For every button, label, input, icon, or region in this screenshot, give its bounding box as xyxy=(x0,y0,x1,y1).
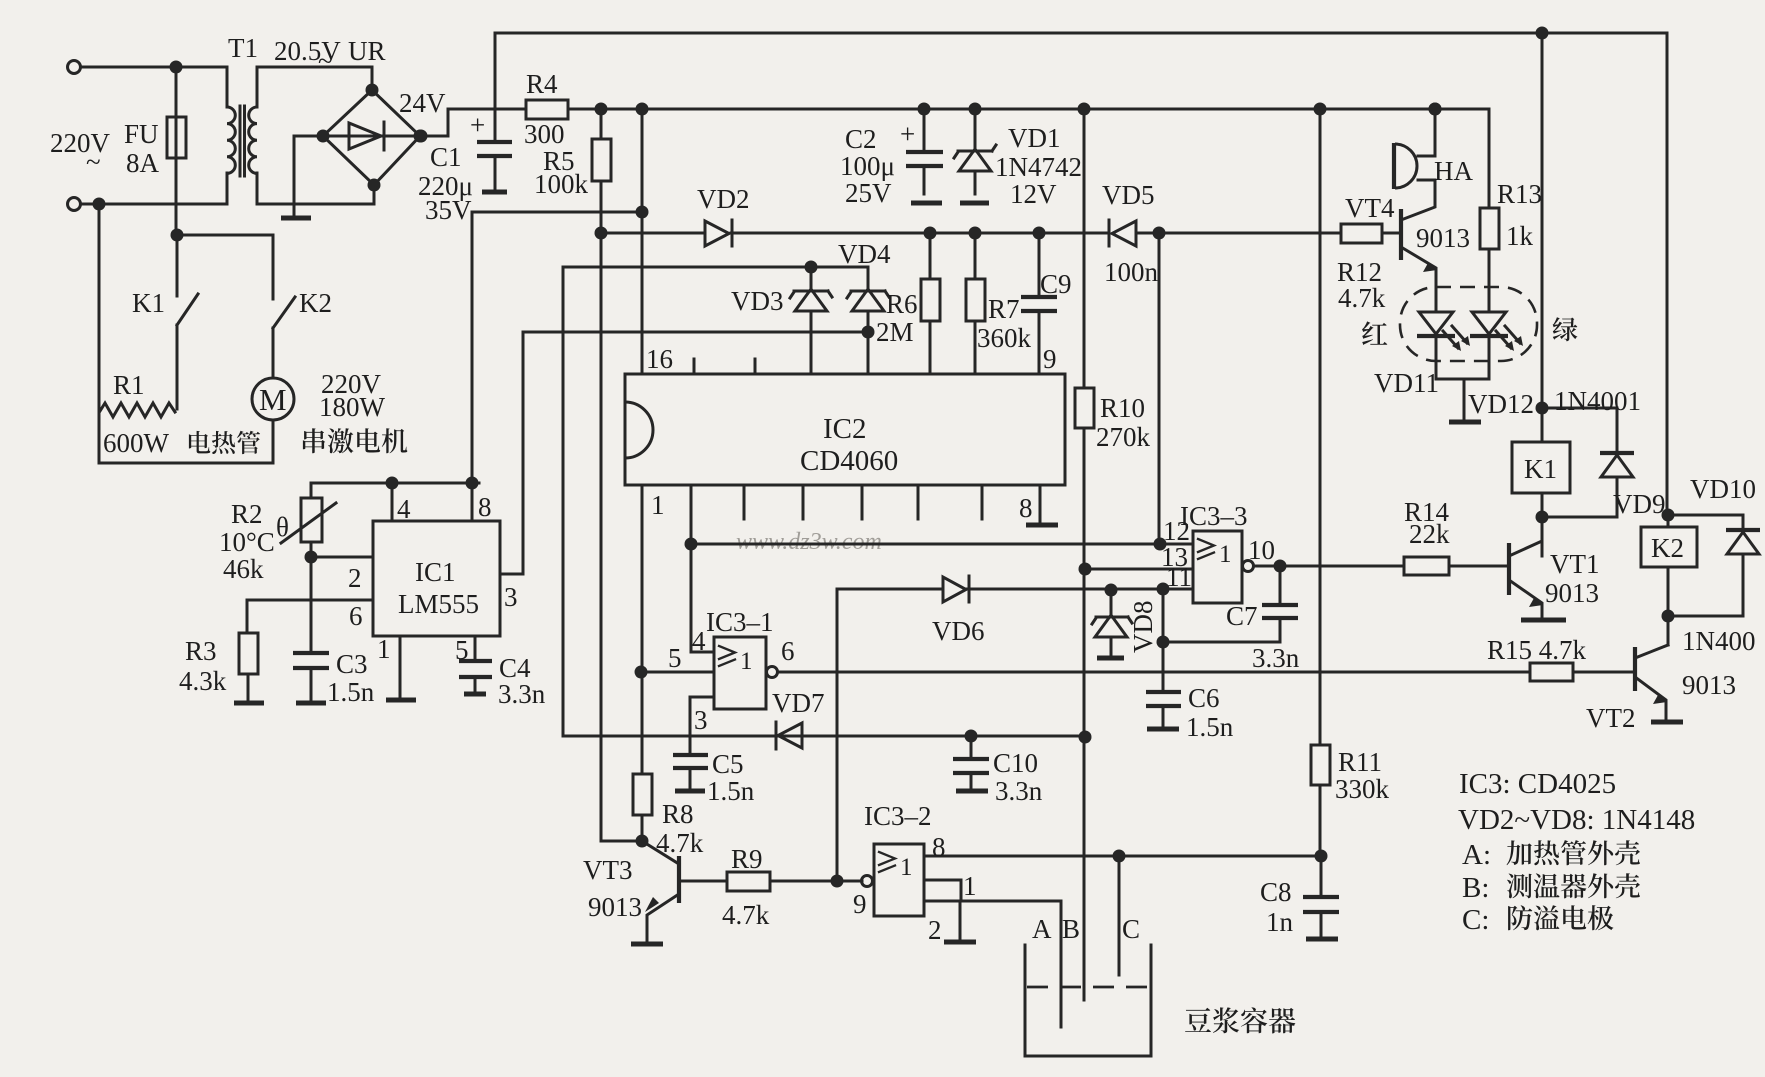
svg-text:R15 4.7k: R15 4.7k xyxy=(1487,635,1587,665)
svg-text:B: B xyxy=(1062,914,1080,944)
svg-text:C:: C: xyxy=(1462,904,1489,936)
svg-text:1N4001: 1N4001 xyxy=(1554,386,1641,416)
svg-text:VD6: VD6 xyxy=(932,616,985,646)
wire VD3VD4 node down to VD7 line xyxy=(562,267,565,736)
svg-text:VD2~VD8: 1N4148: VD2~VD8: 1N4148 xyxy=(1458,804,1695,836)
transistor VT4 9013 xyxy=(1399,209,1403,260)
svg-text:1.5n: 1.5n xyxy=(327,677,375,707)
svg-text:10: 10 xyxy=(1248,535,1275,565)
svg-text:1: 1 xyxy=(377,634,391,664)
switch K1 xyxy=(176,235,179,296)
svg-text:VD5: VD5 xyxy=(1102,180,1155,210)
svg-text:3: 3 xyxy=(504,582,518,612)
resistor R8 4.7k xyxy=(633,774,652,815)
svg-text:VT2: VT2 xyxy=(1586,703,1636,733)
resistor R6 2M xyxy=(929,233,932,279)
wire IC2 pin 1 down xyxy=(641,485,644,774)
wire N to transformer xyxy=(81,203,227,206)
capacitor C1 220u 35V xyxy=(494,33,497,141)
svg-text:VD2: VD2 xyxy=(697,184,750,214)
capacitor C2 100u 25V xyxy=(923,109,926,152)
svg-text:2M: 2M xyxy=(876,317,914,347)
svg-text:C3: C3 xyxy=(336,649,368,679)
wire LED common to ground xyxy=(1436,379,1489,421)
svg-text:CD4060: CD4060 xyxy=(800,445,898,477)
svg-text:IC3–1: IC3–1 xyxy=(706,607,774,637)
wire IC3-1 pin 3 xyxy=(690,697,714,755)
svg-text:9: 9 xyxy=(853,889,867,919)
svg-text:VD4: VD4 xyxy=(838,239,891,269)
svg-text:R7: R7 xyxy=(988,294,1020,324)
wire IC3-3 pin 13 xyxy=(1085,568,1193,571)
svg-text:VT4: VT4 xyxy=(1345,193,1395,223)
svg-text:VT3: VT3 xyxy=(583,855,633,885)
gate IC3-2 xyxy=(874,844,924,916)
wire bridge output to R4 xyxy=(420,109,526,136)
node R4 rail HA xyxy=(1429,103,1442,116)
transistor VT2 9013 xyxy=(1633,647,1637,691)
resistor R10 270k xyxy=(1083,109,1086,388)
svg-text:VT1: VT1 xyxy=(1550,549,1600,579)
transformer T1 secondary winding xyxy=(257,67,372,107)
node pin11 branch xyxy=(1157,583,1170,596)
node K2 VD10 top xyxy=(1662,509,1675,522)
svg-text:330k: 330k xyxy=(1335,774,1390,804)
wire IC3-2 pin 1 to electrode A xyxy=(924,880,1061,1027)
svg-text:1: 1 xyxy=(651,490,665,520)
capacitor C8 1n xyxy=(1320,856,1323,897)
svg-text:35V: 35V xyxy=(425,195,472,225)
pin stubs bottom xyxy=(743,485,746,519)
svg-text:IC3–2: IC3–2 xyxy=(864,801,932,831)
node R4 rail C2 xyxy=(918,103,931,116)
wire R12 to VT4 base xyxy=(1382,232,1400,235)
svg-text:270k: 270k xyxy=(1096,422,1151,452)
svg-text:C5: C5 xyxy=(712,749,744,779)
wire VD5 node down to pin12 line xyxy=(1158,233,1161,544)
wire IC3-2 pin 8 output line xyxy=(924,855,1321,858)
wire 12V rail to HA branch xyxy=(1320,108,1489,111)
svg-text:VD7: VD7 xyxy=(772,688,825,718)
svg-text:8: 8 xyxy=(932,832,946,862)
svg-text:12V: 12V xyxy=(1010,179,1057,209)
svg-text:R13: R13 xyxy=(1497,179,1542,209)
svg-text:www.dz3w.com: www.dz3w.com xyxy=(736,529,882,555)
resistor R13 1k xyxy=(1488,109,1491,208)
svg-text:8: 8 xyxy=(478,492,492,522)
IC1 LM555 box xyxy=(373,521,500,636)
wire 24V top rail xyxy=(495,32,1667,35)
svg-text:6: 6 xyxy=(349,601,363,631)
node VD3 cathode xyxy=(805,261,818,274)
terminal input L xyxy=(68,61,81,74)
node pin8 R11 C8 xyxy=(1315,850,1328,863)
wire pin 2 xyxy=(311,556,373,559)
terminal input N xyxy=(68,198,81,211)
svg-text:R2: R2 xyxy=(231,499,263,529)
svg-text:4.7k: 4.7k xyxy=(722,900,770,930)
svg-text:100μ: 100μ xyxy=(840,151,895,181)
wire bridge left to ground xyxy=(294,136,323,217)
node feed jog xyxy=(636,206,649,219)
wire VD6 branch down to R9 node xyxy=(836,589,839,881)
svg-text:100k: 100k xyxy=(534,169,589,199)
svg-text:~: ~ xyxy=(86,147,101,177)
svg-text:2: 2 xyxy=(348,563,362,593)
wire pin 3 output up and right xyxy=(500,332,869,574)
svg-text:HA: HA xyxy=(1434,156,1473,186)
svg-text:11: 11 xyxy=(1166,562,1192,592)
transistor VT1 9013 xyxy=(1507,543,1511,595)
pin stub top b xyxy=(754,359,757,374)
node VT3 collector xyxy=(636,835,649,848)
svg-text:1.5n: 1.5n xyxy=(1186,712,1234,742)
svg-text:9013: 9013 xyxy=(1682,670,1736,700)
node VD4 anode pin3 line xyxy=(862,326,875,339)
svg-text:1: 1 xyxy=(900,854,913,881)
node K branch junction xyxy=(171,229,184,242)
svg-text:VD1: VD1 xyxy=(1008,123,1061,153)
svg-text:R11: R11 xyxy=(1338,747,1382,777)
diode VD6 xyxy=(837,588,1193,591)
gate IC3-1 xyxy=(714,637,766,709)
diode VD3 xyxy=(810,267,813,287)
diode VD7 xyxy=(563,735,1085,738)
wire IC3-2 pin 2 ground xyxy=(959,901,962,941)
wire R5 branch down to VT3 collector xyxy=(601,233,642,841)
motor M xyxy=(252,378,294,420)
svg-text:K1: K1 xyxy=(1524,454,1557,484)
svg-text:C2: C2 xyxy=(845,124,877,154)
gate IC3-3 output bubble pin 10 xyxy=(1243,561,1254,572)
wire VD3 VD4 cathode node xyxy=(563,267,868,287)
svg-text:1n: 1n xyxy=(1266,907,1294,937)
svg-text:R3: R3 xyxy=(185,636,217,666)
node bridge top xyxy=(366,84,379,97)
svg-text:~: ~ xyxy=(318,46,333,76)
svg-text:1: 1 xyxy=(963,871,977,901)
node R4 rail VD1 xyxy=(969,103,982,116)
svg-text:360k: 360k xyxy=(977,323,1032,353)
svg-text:3.3n: 3.3n xyxy=(995,776,1043,806)
svg-text:R1: R1 xyxy=(113,370,145,400)
svg-text:4: 4 xyxy=(692,626,706,656)
wire IC1 supply pins 4 8 xyxy=(311,482,479,485)
wire VD2 rail xyxy=(601,232,1399,235)
svg-text:K2: K2 xyxy=(1651,533,1684,563)
wire pin11 branch to C7 bottom and C6 xyxy=(1162,589,1165,692)
relay coil K1 xyxy=(1512,442,1570,493)
svg-text:1N4742: 1N4742 xyxy=(995,152,1082,182)
svg-text:IC3–3: IC3–3 xyxy=(1180,501,1248,531)
container tank xyxy=(1025,945,1151,1056)
svg-text:9: 9 xyxy=(1043,344,1057,374)
node K1 bottom xyxy=(1536,511,1549,524)
svg-text:C1: C1 xyxy=(430,142,462,172)
LED VD12 green xyxy=(1472,312,1506,334)
svg-text:24V: 24V xyxy=(399,88,446,118)
svg-text:8: 8 xyxy=(1019,493,1033,523)
svg-text:4.3k: 4.3k xyxy=(179,666,227,696)
svg-text:VD9: VD9 xyxy=(1613,489,1666,519)
capacitor C10 3.3n xyxy=(970,736,973,759)
svg-text:IC2: IC2 xyxy=(823,413,867,445)
node top rail K1 branch xyxy=(1536,27,1549,40)
resistor R15 4.7k xyxy=(1530,663,1573,681)
svg-text:16: 16 xyxy=(646,344,673,374)
capacitor C3 1.5n xyxy=(310,557,313,652)
node R4 rail pin16 line xyxy=(636,103,649,116)
wire pin10 to R14 and VT1 xyxy=(1254,565,1508,568)
node HA top xyxy=(1429,103,1442,116)
svg-text:10°C: 10°C xyxy=(219,527,275,557)
speaker HA xyxy=(1418,109,1435,156)
node R2 bottom pin2 xyxy=(305,551,318,564)
svg-text:C6: C6 xyxy=(1188,683,1220,713)
zener VD8 xyxy=(1105,584,1118,597)
fuse FU 8A xyxy=(175,67,178,235)
wire L to transformer xyxy=(81,66,227,69)
svg-text:VD12: VD12 xyxy=(1468,389,1534,419)
node R6 top xyxy=(924,227,937,240)
svg-text:3.3n: 3.3n xyxy=(1252,643,1300,673)
svg-text:VD10: VD10 xyxy=(1690,474,1756,504)
resistor R5 100k xyxy=(600,109,603,139)
wire IC2 pin 8 ground xyxy=(1039,485,1042,524)
transformer T1 core xyxy=(240,106,245,176)
IC2 CD4060 box xyxy=(625,374,1065,485)
svg-text:R6: R6 xyxy=(886,289,918,319)
resistor R9 4.7k xyxy=(727,872,770,891)
wire pin 1 to ground xyxy=(399,636,402,699)
wire top rail right edge down to K2 xyxy=(1666,33,1669,515)
svg-text:R9: R9 xyxy=(731,844,763,874)
resistor R3 4.3k xyxy=(239,633,258,674)
node VD7 line C10 xyxy=(965,730,978,743)
gate IC3-2 input bubble pin 9 xyxy=(862,876,873,887)
diode VD9 1N4001 xyxy=(1542,408,1617,455)
svg-text:8A: 8A xyxy=(126,148,160,178)
label container xyxy=(1185,1007,1295,1033)
node C9 top xyxy=(1033,227,1046,240)
thermistor R2 10C 46k xyxy=(310,483,313,498)
svg-text:VD11: VD11 xyxy=(1374,368,1439,398)
bridge rectifier inner diode xyxy=(323,135,420,138)
zener VD1 1N4742 xyxy=(974,109,977,147)
svg-text:T1: T1 xyxy=(228,33,258,63)
node R4 rail R10 xyxy=(1078,103,1091,116)
node VD7 line electrodeB xyxy=(1079,731,1092,744)
resistor R7 360k xyxy=(974,233,977,279)
svg-text:9013: 9013 xyxy=(1416,223,1470,253)
svg-text:1k: 1k xyxy=(1506,221,1534,251)
svg-text:R4: R4 xyxy=(526,69,558,99)
svg-text:C7: C7 xyxy=(1226,601,1258,631)
gate IC3-1 output bubble pin 6 xyxy=(767,667,778,678)
resistor R12 4.7k xyxy=(1341,224,1382,243)
resistor R1 heater xyxy=(100,403,175,417)
wire pin6 R15 line to VT2 xyxy=(778,671,1634,674)
diode VD2 xyxy=(705,221,729,246)
wire K branch to K2 xyxy=(177,235,273,299)
transistor VT3 9013 xyxy=(677,856,681,903)
svg-text:9013: 9013 xyxy=(1545,578,1599,608)
svg-text:R10: R10 xyxy=(1100,393,1145,423)
wire IC2 pin 16 xyxy=(641,212,644,374)
svg-text:180W: 180W xyxy=(319,392,386,422)
LED VD11 red xyxy=(1419,312,1453,334)
node K1 VD9 top xyxy=(1536,402,1549,415)
wire IC2 pin2 down to pin12 line xyxy=(690,485,693,544)
svg-text:1N400: 1N400 xyxy=(1682,626,1756,656)
relay coil K2 xyxy=(1667,515,1670,527)
switch K2 xyxy=(273,297,295,328)
wire pin12 net IC2 to IC3-3 xyxy=(691,543,1193,546)
node pin8 electrodeC xyxy=(1113,850,1126,863)
svg-text:300: 300 xyxy=(524,119,565,149)
svg-text:C10: C10 xyxy=(993,748,1038,778)
node bridge bottom xyxy=(368,179,381,192)
node R7 top xyxy=(969,227,982,240)
wire IC3-1 pin 5 xyxy=(641,671,714,674)
svg-text:1: 1 xyxy=(740,648,753,675)
svg-text:IC1: IC1 xyxy=(415,557,456,587)
node N junction xyxy=(93,198,106,211)
capacitor C4 3.3n on pin 5 xyxy=(474,636,477,661)
node 24V junction at bridge output xyxy=(415,130,428,143)
node L-fuse junction xyxy=(170,61,183,74)
svg-text:IC3: CD4025: IC3: CD4025 xyxy=(1459,768,1616,800)
node R5 bottom xyxy=(595,227,608,240)
wire heater motor return loop xyxy=(99,204,273,463)
wire pin 6 to R3 xyxy=(247,600,373,633)
svg-text:2: 2 xyxy=(928,915,942,945)
electrode C wire xyxy=(1118,856,1121,975)
svg-text:θ: θ xyxy=(276,512,289,542)
svg-text:1.5n: 1.5n xyxy=(707,776,755,806)
svg-text:3: 3 xyxy=(694,705,708,735)
capacitor C5 1.5n xyxy=(673,753,708,757)
svg-text:25V: 25V xyxy=(845,178,892,208)
resistor R14 22k xyxy=(1404,557,1449,575)
svg-text:220V: 220V xyxy=(50,128,111,158)
svg-text:M: M xyxy=(259,382,287,417)
svg-text:5: 5 xyxy=(668,643,682,673)
svg-text:C: C xyxy=(1122,914,1140,944)
svg-text:B:: B: xyxy=(1462,872,1489,904)
node R4 rail R5 xyxy=(595,103,608,116)
resistor R11 330k xyxy=(1311,745,1330,785)
capacitor C7 3.3n feedback xyxy=(1279,566,1282,605)
svg-text:6: 6 xyxy=(781,636,795,666)
svg-text:1: 1 xyxy=(1219,541,1232,568)
node R4 rail R11 xyxy=(1314,103,1327,116)
svg-text:46k: 46k xyxy=(223,554,264,584)
svg-text:UR: UR xyxy=(348,36,386,66)
svg-text:A:: A: xyxy=(1462,839,1491,871)
svg-text:A: A xyxy=(1032,914,1052,944)
svg-text:LM555: LM555 xyxy=(398,589,479,619)
wire 24V feed to IC1 xyxy=(472,109,642,483)
node R9 IC3-2 input xyxy=(831,875,844,888)
svg-text:R8: R8 xyxy=(662,799,694,829)
svg-text:C9: C9 xyxy=(1040,269,1072,299)
dashed LED enclosure xyxy=(1400,287,1537,361)
svg-text:FU: FU xyxy=(124,119,159,149)
wire IC3-1 pin 4 xyxy=(691,544,714,652)
node bridge left xyxy=(317,130,330,143)
bridge rectifier UR diamond xyxy=(371,67,374,90)
svg-text:9013: 9013 xyxy=(588,892,642,922)
diode VD4 xyxy=(847,291,889,298)
wire top rail down to K1 xyxy=(1541,33,1544,442)
svg-text:600W: 600W xyxy=(103,428,170,458)
diode VD5 xyxy=(1112,221,1136,246)
svg-text:VD3: VD3 xyxy=(731,286,784,316)
gate IC3-3 xyxy=(1193,531,1242,603)
node VD5 anode junction xyxy=(1153,227,1166,240)
svg-text:C8: C8 xyxy=(1260,877,1292,907)
svg-text:22k: 22k xyxy=(1409,519,1450,549)
liquid dashed line xyxy=(1027,986,1149,989)
capacitor C6 1.5n xyxy=(1146,690,1181,694)
node K2 bottom xyxy=(1662,610,1675,623)
svg-text:3.3n: 3.3n xyxy=(498,679,546,709)
svg-text:5: 5 xyxy=(455,635,469,665)
svg-text:+: + xyxy=(470,110,485,140)
svg-text:K2: K2 xyxy=(299,288,332,318)
svg-text:100n: 100n xyxy=(1104,257,1159,287)
pin stub top a xyxy=(693,359,696,374)
node bridge right xyxy=(414,130,427,143)
ground below bridge xyxy=(281,216,311,221)
capacitor C9 xyxy=(1038,233,1041,297)
svg-text:+: + xyxy=(900,119,915,149)
resistor R4 300 xyxy=(526,100,568,119)
transformer T1 primary winding xyxy=(226,67,229,107)
svg-text:4.7k: 4.7k xyxy=(1338,283,1386,313)
svg-text:K1: K1 xyxy=(132,288,165,318)
svg-text:VD8: VD8 xyxy=(1128,601,1158,654)
diode VD10 1N400 xyxy=(1668,515,1743,531)
